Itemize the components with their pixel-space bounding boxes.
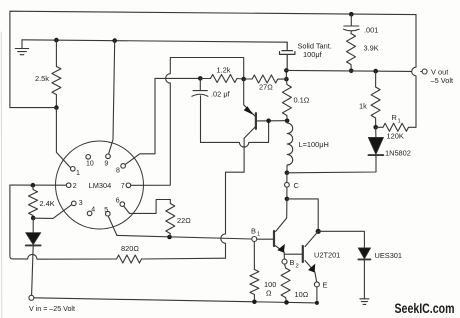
wire B2 to 10ohm — [285, 264, 286, 268]
node dot 0.1ohm bottom / L top / base — [285, 119, 290, 124]
node dot 2.4K bottom — [31, 216, 36, 221]
pin 5 circle — [106, 211, 111, 216]
wire ground rail — [22, 40, 287, 42]
transistor Q1 PNP bar — [255, 113, 257, 129]
node dot pin9 riser top — [112, 38, 117, 43]
node dot 1k bottom / R1 left / 1N5802 anode — [373, 125, 378, 130]
svg-text:1k: 1k — [359, 102, 367, 111]
op-amp regulator U1 LM304 can outline — [56, 141, 144, 229]
node dot 22ohm bottom — [167, 235, 172, 240]
svg-text:SeekIC.com: SeekIC.com — [395, 301, 455, 316]
diode 1N5802 lead and body — [368, 127, 383, 158]
svg-text:2: 2 — [73, 183, 77, 190]
svg-text:3.9K: 3.9K — [364, 44, 379, 53]
resistor 22ohm — [166, 200, 175, 238]
diode D1 cathode lead down to V in terminal — [32, 245, 34, 295]
svg-text:Ω: Ω — [266, 289, 272, 298]
node dot L bottom — [285, 171, 290, 176]
node C terminal circle — [285, 173, 290, 199]
wire pin 2 horizontal — [10, 184, 66, 186]
resistor 820ohm — [117, 255, 142, 263]
resistor 10ohm — [281, 268, 290, 302]
wire collector riser (with left hop over B1 rail) — [221, 138, 244, 258]
diode D1 body — [26, 233, 41, 246]
svg-text:U2T201: U2T201 — [314, 251, 340, 260]
diode D1 (input protection) anode lead — [32, 218, 34, 233]
node dot bottom rail end — [315, 301, 319, 305]
svg-text:3: 3 — [79, 200, 83, 207]
transistor Q2 emitter lead with arrowhead — [274, 244, 285, 261]
pin 8 circle — [121, 164, 126, 169]
wire UES301 cathode to ground — [363, 259, 365, 298]
wire pin 5 to B1 rail — [108, 216, 117, 235]
node dot 1.2k left — [198, 76, 203, 81]
wire top rail (-input bus) — [10, 11, 416, 107]
svg-text:1: 1 — [76, 170, 80, 177]
pin 9 circle — [106, 154, 111, 159]
svg-text:LM304: LM304 — [89, 181, 112, 190]
svg-text:22Ω: 22Ω — [177, 216, 191, 225]
node dot C branch — [285, 197, 290, 202]
wire Q3 collector node to UES301 — [318, 231, 364, 248]
wire left rail to 2.5k bottom — [10, 107, 57, 109]
svg-text:.001: .001 — [364, 26, 378, 35]
svg-text:1N5802: 1N5802 — [385, 149, 411, 158]
wire right vertical from top rail down to 120K (with hop over Vout line) — [412, 15, 416, 128]
wire pin 8 elbow — [125, 78, 200, 164]
resistor 27ohm — [244, 75, 287, 83]
pin 4 circle — [87, 211, 92, 216]
wire L bottom to 1N5802 cathode — [287, 155, 376, 173]
terminal circle E — [314, 282, 319, 287]
svg-text:9: 9 — [104, 160, 108, 167]
capacitor C1 .02uf top lead — [199, 78, 201, 90]
svg-text:E: E — [323, 281, 328, 290]
svg-text:UES301: UES301 — [375, 251, 403, 260]
resistor 2.5k — [52, 40, 61, 108]
svg-text:.02 μf: .02 μf — [211, 90, 231, 99]
svg-text:2: 2 — [296, 264, 299, 270]
svg-text:6: 6 — [116, 198, 120, 205]
svg-text:10: 10 — [86, 160, 94, 167]
node dot base wire — [266, 119, 271, 124]
svg-text:100μf: 100μf — [303, 50, 323, 59]
svg-text:8: 8 — [116, 167, 120, 174]
node dot 2.5k bottom — [54, 105, 59, 110]
svg-text:B: B — [251, 226, 256, 235]
capacitor C1 .02uf plates — [192, 91, 208, 97]
transistor Q1 collector lead — [244, 126, 256, 138]
svg-text:B: B — [290, 258, 295, 267]
pin 1 circle — [71, 167, 76, 172]
inductor L 100uH coil — [287, 121, 293, 173]
wire 820 rail right to riser — [142, 257, 226, 260]
wire Vout rail (hop over right vertical) — [286, 70, 422, 71]
pin 7 circle — [126, 183, 131, 188]
resistor 1.2k — [200, 75, 243, 83]
wire node C to right branch down to Q3 collector node — [287, 199, 318, 231]
svg-text:5: 5 — [104, 207, 108, 214]
capacitor C2 solid tantalum plates — [280, 42, 295, 70]
wire 2.4K bottom to LM304 pin 3 — [33, 205, 71, 219]
terminal circle V in — [29, 295, 34, 300]
node dot 100ohm bottom — [252, 300, 257, 305]
svg-text:7: 7 — [121, 183, 125, 190]
wire B1 to Q2 base — [257, 238, 274, 240]
node dot 1.2k right / emitter node — [241, 77, 246, 82]
resistor 3.9K — [347, 34, 356, 71]
svg-text:R: R — [392, 113, 397, 122]
node dot 10ohm bottom — [284, 300, 289, 305]
pin 6 circle — [120, 202, 125, 207]
transistor Q1 base lead — [256, 120, 287, 122]
wire pin9 riser down to LM304 pin 9 — [109, 41, 115, 154]
pin 10 circle — [86, 155, 91, 160]
svg-text:120K: 120K — [387, 132, 404, 141]
wire cap to base node (hop under collector line) — [201, 121, 269, 147]
scan edge artifact left — [0, 32, 3, 318]
transistor Q3 bar — [302, 246, 304, 262]
wire bottom rail from V in — [34, 298, 317, 303]
svg-text:1.2k: 1.2k — [217, 66, 231, 75]
terminal circle V out — [422, 69, 427, 74]
node dot 0.1ohm top / 27ohm right — [284, 77, 289, 82]
wire 27ohm node up to Vout rail — [285, 70, 287, 79]
diode UES301 body — [358, 248, 370, 260]
resistor 0.1ohm — [282, 79, 291, 121]
svg-text:0.1Ω: 0.1Ω — [294, 96, 310, 105]
transistor Q3 collector lead — [305, 231, 318, 246]
svg-text:2.4K: 2.4K — [40, 199, 55, 208]
wire 820-ohm rail (pin2 net to collector riser) with hop over diode lead — [22, 254, 117, 259]
capacitor C1 bottom lead down to base wire — [200, 96, 202, 143]
pin 2 circle — [66, 183, 71, 188]
resistor 100ohm — [250, 270, 259, 302]
node dot 2.4K top — [31, 183, 36, 188]
node dot Q3 collector node — [316, 229, 321, 234]
ground symbol top-left — [15, 40, 28, 55]
capacitor C3 .001 lead and plates — [344, 12, 360, 34]
svg-text:10Ω: 10Ω — [295, 290, 309, 299]
wire B1 down to 100ohm — [253, 242, 255, 270]
svg-text:L=100μH: L=100μH — [299, 140, 329, 149]
svg-text:V in = –25 Volt: V in = –25 Volt — [29, 305, 75, 313]
wire node C down to Q2 collector — [276, 199, 287, 232]
resistor 1k — [371, 71, 380, 127]
transistor Q3 emitter lead with arrowhead — [305, 261, 317, 282]
transistor Q1 emitter lead from 1.2k node — [244, 79, 256, 116]
terminal circle B2 — [282, 259, 287, 264]
resistor R1 120K — [376, 123, 416, 131]
ground symbol under UES301 — [360, 299, 369, 305]
svg-text:C: C — [294, 181, 300, 190]
svg-text:–5 Volt: –5 Volt — [431, 76, 454, 85]
svg-text:27Ω: 27Ω — [259, 83, 273, 92]
wire pin 6 elbow to 22ohm — [124, 200, 171, 214]
svg-text:2.5k: 2.5k — [35, 74, 49, 83]
node dot tant cap bottom on Vout rail — [284, 68, 289, 73]
wire Q2 emitter to Q3 base — [284, 253, 303, 255]
svg-text:1: 1 — [257, 232, 260, 238]
terminal circle B1 — [252, 237, 257, 242]
svg-text:1: 1 — [398, 119, 401, 125]
transistor Q1 emitter arrowhead — [244, 106, 253, 114]
wire pin 7 loop over 1.2k (riser with hop at pin8 wire) — [131, 58, 244, 186]
node dot 3.9K bottom on Vout rail — [349, 69, 354, 74]
svg-text:4: 4 — [91, 206, 95, 213]
node dot 1k top — [373, 69, 378, 74]
node dot 2.5k top — [54, 38, 59, 43]
wire E down to bottom rail — [316, 287, 318, 303]
resistor 2.4K — [29, 185, 38, 218]
pin 3 circle — [72, 201, 77, 206]
wire 2.5k bottom down to LM304 pin 1 — [56, 108, 70, 168]
svg-text:820Ω: 820Ω — [121, 244, 139, 253]
wire V in left vertical (pin2 net) — [10, 185, 22, 259]
wire B1 rail — [117, 235, 252, 239]
transistor Q2 bar — [273, 231, 275, 246]
